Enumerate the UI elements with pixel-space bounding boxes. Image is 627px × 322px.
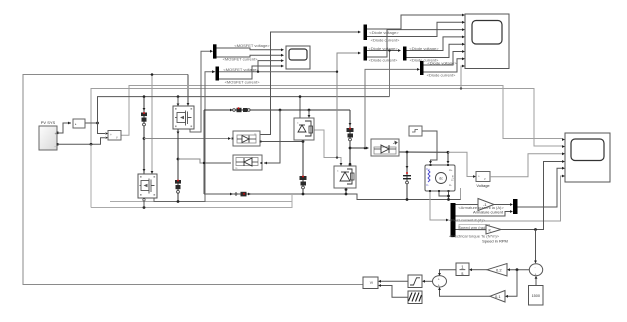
- svg-text:0.1: 0.1: [495, 294, 501, 299]
- svg-text:+: +: [438, 283, 440, 287]
- constant block A (TL input): [409, 126, 422, 136]
- node drain bus D3 tap: [299, 95, 302, 98]
- node motor top junction: [447, 151, 450, 154]
- wire D5 output to motor: [399, 151, 448, 153]
- node D4 rail junction: [345, 193, 348, 196]
- wire D1 m port to bus B3 riser: [260, 32, 358, 135]
- wire B7 out4 to RPM gain: [456, 229, 487, 231]
- wire right end of y110 down to S5: [349, 110, 351, 165]
- sum block sum2: [433, 276, 447, 288]
- node PI branch: [516, 268, 519, 271]
- wire B4 out2 to scope2 in3: [367, 30, 462, 57]
- svg-text:TL m: TL m: [451, 175, 455, 181]
- node B4 riser junction: [336, 156, 338, 158]
- svg-text:<MOSFET voltage>: <MOSFET voltage>: [223, 67, 259, 72]
- current sensor S3 horizontal on rail y194: [230, 192, 251, 197]
- svg-text:PV SYS: PV SYS: [41, 120, 56, 125]
- wire B7 out1 to gain -1: [456, 204, 479, 206]
- wire motor right stub to rail: [460, 188, 462, 200]
- node D5 output capacitor branch: [406, 151, 409, 154]
- svg-text:<MOSFET voltage>: <MOSFET voltage>: [234, 43, 270, 48]
- wire bridge top bus y=110: [204, 109, 350, 111]
- arrow into MOSFET2 top-left: [143, 169, 146, 172]
- node D1 out junction on D3 column: [302, 140, 305, 143]
- arrow into B4: [358, 52, 361, 55]
- diode block D1: [232, 131, 262, 146]
- diode block D5 (boost diode): [371, 139, 399, 156]
- wire B2 out2 to scope1 in4: [219, 66, 281, 79]
- arrow into B7: [446, 219, 449, 222]
- gain 0.1 triangle (left pointing): [490, 291, 505, 303]
- current sensor S7 vertical below D3: [300, 176, 307, 189]
- wire motor m port to bus selector B7: [430, 191, 446, 220]
- node B5 feed junction: [388, 49, 390, 51]
- scope1 (4 inputs): [281, 46, 310, 69]
- node S1 line to D1: [143, 137, 146, 140]
- wire PV- down to bottom rail: [90, 144, 92, 207]
- svg-text:0.2: 0.2: [496, 268, 502, 273]
- wire gate riser to MOSFET1: [187, 75, 189, 105]
- inductor block L1: [68, 119, 85, 128]
- comparator block K: [363, 277, 378, 289]
- diode block D2 (pointing left): [233, 155, 263, 170]
- saturation block: [408, 275, 422, 288]
- wire A constant block down to motor: [422, 131, 437, 161]
- node y110 to D3 gate arrow: [308, 109, 311, 112]
- svg-text:Armature current: Armature current: [473, 210, 504, 215]
- wire D3 m port loop to B4 riser and D4 input: [314, 130, 341, 163]
- arrow into capacitor: [406, 166, 409, 169]
- sum block sum3 (speed error): [529, 264, 542, 277]
- repeating sequence block (sawtooth): [408, 291, 422, 304]
- wire rail A y=194: [204, 194, 461, 200]
- node drain bus to S1: [143, 95, 146, 98]
- wire left bottom rail y=201.5: [110, 194, 292, 202]
- node D4 bottom junction: [345, 188, 348, 191]
- arrow into D1: [228, 137, 231, 140]
- node y110 to D2 input riser: [279, 109, 282, 112]
- wire drain bus down to diode D3 top-left: [299, 97, 301, 118]
- node S5 to D5 branch: [349, 147, 352, 150]
- wire D5 input node to B6 input riser: [364, 147, 367, 150]
- wire B3 out1 to scope2 in1: [367, 15, 462, 29]
- node D2out/rail riser junction: [203, 162, 205, 164]
- svg-text:Voltage: Voltage: [476, 183, 490, 188]
- wire L1 output to node: [85, 122, 98, 124]
- gain -1 triangle: [478, 199, 494, 211]
- DC motor block: [425, 164, 455, 192]
- wire riser up to bus B4: [337, 53, 358, 158]
- wire voltage meas output to scope3 in3: [490, 154, 562, 177]
- svg-text:+: +: [535, 273, 537, 277]
- wire sum2 output to saturation: [425, 280, 433, 282]
- node MOSFET2 bottom rail junction: [143, 206, 146, 209]
- arrow into S1: [143, 108, 146, 111]
- wire bridge left end riser: [203, 110, 205, 163]
- svg-text:<Diode voltage>: <Diode voltage>: [368, 46, 398, 51]
- svg-text:+: +: [110, 133, 112, 137]
- svg-text:<Diode current>: <Diode current>: [371, 38, 400, 43]
- gain 0.2 triangle (left pointing): [487, 264, 507, 277]
- wire sum3 output to gain 0.2: [508, 269, 529, 271]
- bus selector B6: [420, 61, 424, 75]
- bus creator B8: [513, 199, 518, 214]
- wire B2 out1 to scope1 in3: [219, 71, 337, 73]
- wire source node to D2 output path: [178, 159, 204, 163]
- wire PV plus to L1 inductor: [58, 123, 72, 133]
- wire node up and right (drain bus y=96): [98, 97, 390, 123]
- node L1 output junction: [96, 122, 99, 125]
- wire speed down to sum3: [535, 230, 537, 261]
- svg-text:<MOSFET current>: <MOSFET current>: [225, 80, 260, 85]
- wire motor A+ drop: [447, 152, 449, 161]
- node MOSFET1 source junction: [177, 158, 180, 161]
- svg-text:<Diode voltage>: <Diode voltage>: [369, 30, 399, 35]
- wire MOSFET1 top connection: [177, 97, 179, 106]
- wire PV- voltage to Scope3 in2 (long light wire): [91, 89, 562, 147]
- MOSFET block M2: [138, 171, 157, 201]
- svg-text:A-: A-: [449, 183, 452, 187]
- wire B8 output to scope3 in5: [518, 168, 563, 207]
- wire RPM gain output to sum3 and scope3 in4: [501, 162, 562, 230]
- wire D1 output to D3 column: [260, 141, 303, 143]
- bus selector B4: [364, 47, 368, 61]
- wire B5 out2 to scope2 in5: [407, 44, 463, 57]
- wire gate riser to MOSFET2: [151, 75, 153, 172]
- node motor rail junction: [447, 198, 450, 201]
- wire scope2 in8 riser: [461, 66, 462, 89]
- diode block D3 (vertical): [294, 118, 314, 140]
- svg-text:+: +: [55, 132, 57, 136]
- label speed wm boxed: [458, 225, 490, 231]
- wire D2 output left and down to rail: [204, 163, 231, 194]
- wire down to S1 sensor: [143, 97, 145, 174]
- bus selector B3: [364, 25, 368, 41]
- scope2 (8 inputs): [462, 14, 509, 69]
- arrow into S5: [349, 123, 352, 126]
- current sensor S5 vertical above D4: [347, 128, 354, 141]
- wire B2 out1 branch to scope1 in3: [258, 61, 281, 72]
- current sensor S2: [175, 180, 181, 194]
- wire B7 out3 to scope3 in6: [456, 176, 563, 221]
- wire gain 0.2 to integrator: [472, 269, 487, 271]
- MOSFET block M1: [173, 103, 194, 135]
- wire node down into V2 input1: [98, 123, 106, 134]
- wire left bottom rail y=207.5: [91, 202, 292, 208]
- constant block 1500: [529, 286, 544, 306]
- wire motor bottom ports to rail: [439, 191, 449, 196]
- wire B4 out1 to B5 input: [367, 50, 398, 52]
- wire B5 out1 to scope2 in4: [407, 37, 463, 51]
- bus selector B7 (motor measurements): [451, 203, 456, 237]
- svg-text:<Diode voltage>: <Diode voltage>: [427, 61, 457, 66]
- wire riser from drain bus to B5 input: [389, 51, 391, 97]
- voltage measurement block V2: [106, 131, 122, 141]
- arrow into motor top left: [429, 161, 432, 164]
- svg-text:F-: F-: [427, 183, 430, 187]
- arrow into D4 top-right: [349, 163, 352, 166]
- wire voltage meas tap: [448, 152, 473, 176]
- node D4 gate junction: [349, 164, 352, 167]
- node motor bottom junction: [447, 195, 450, 198]
- wire S1 node to diode D1 input: [144, 138, 228, 140]
- svg-text:<Diode voltage>: <Diode voltage>: [409, 46, 439, 51]
- arrow into motor top right: [447, 161, 450, 164]
- arrow into B3: [358, 31, 361, 34]
- wire MOSFET2 m port to bus selector B2 riser: [154, 72, 212, 202]
- node D3 column rail junction: [302, 193, 305, 196]
- capacitor C1: [403, 172, 411, 184]
- wire B1 out1 to scope1 in1: [217, 48, 282, 50]
- wire down into D3 top-right: [308, 110, 310, 115]
- svg-text:A+: A+: [449, 168, 453, 172]
- wire MOSFET1 bottom to S2 and rail: [177, 129, 179, 202]
- wire B6 out1 to scope2 in6: [424, 52, 463, 66]
- wire branch down to gain 0.1: [508, 270, 517, 297]
- wire B6 out2 to scope2 in7: [424, 59, 463, 72]
- wire 1500 to sum3: [535, 279, 537, 286]
- node B2 out1 to B4 riser junction: [336, 71, 338, 73]
- bus selector B5: [403, 47, 407, 61]
- svg-text:-: -: [535, 265, 536, 269]
- node S2 rail junction: [177, 200, 180, 203]
- voltage measurement block (motor): [476, 172, 490, 189]
- wire gain 0.1 to sum2 bottom: [440, 290, 491, 296]
- arrow into voltage block: [473, 175, 476, 178]
- wire V2 output to Scope3 in1 (long light wire): [121, 86, 562, 139]
- svg-text:1500: 1500: [532, 294, 540, 298]
- arrow into D5: [366, 147, 369, 150]
- svg-text:<Field current if (A)>: <Field current if (A)>: [449, 218, 486, 223]
- node capacitor rail junction: [406, 198, 409, 201]
- wire riser down to D2 input: [264, 110, 280, 163]
- svg-text:<MOSFET current>: <MOSFET current>: [223, 57, 258, 62]
- wire gain -1 to B8 in1: [494, 204, 510, 206]
- wire D3 bottom through S7 to rail: [302, 140, 304, 194]
- wire D4 bottom to rail: [345, 188, 347, 194]
- svg-text:<Diode current>: <Diode current>: [369, 58, 398, 63]
- wire PV minus horizontal: [58, 138, 106, 145]
- diode block D4 (vertical): [334, 166, 356, 188]
- wire MOSFET2 bottom to rail: [143, 198, 145, 208]
- svg-text:F+: F+: [427, 167, 431, 171]
- gain rad/s to RPM: [486, 225, 501, 234]
- wire B1 out2 to scope1 in2: [217, 55, 282, 57]
- svg-text:dc: dc: [439, 177, 443, 181]
- arrow into D2 right side: [264, 162, 267, 165]
- bus selector B2: [212, 67, 219, 81]
- wire PWM feedback loop from K output to gates: [23, 75, 363, 285]
- wire capacitor column: [406, 152, 408, 200]
- wire B3 out2 to scope2 in2: [367, 22, 462, 36]
- arrow into D3 top-right: [308, 115, 311, 118]
- svg-text:<Diode current>: <Diode current>: [427, 73, 456, 78]
- integrator block 1/s: [456, 263, 469, 276]
- wire B7 out2 to B8 in2: [456, 212, 511, 217]
- node speed split: [534, 228, 537, 231]
- wire integrator to sum2 top: [440, 270, 457, 273]
- node B2 out1 scope tap: [257, 71, 259, 73]
- arrow into D4 top-left: [340, 163, 343, 166]
- svg-text:Speed in RPM: Speed in RPM: [482, 239, 508, 244]
- wire motor bottom right to rail: [448, 191, 450, 200]
- node PV- junction: [90, 143, 93, 146]
- node drain bus to MOSFET1 top: [177, 95, 180, 98]
- svg-text:+: +: [478, 175, 480, 179]
- bus selector B1: [210, 44, 217, 58]
- wire S5 node to D5 input: [350, 147, 366, 149]
- scope3 (6 inputs): [562, 133, 610, 182]
- current sensor S1: [141, 112, 147, 126]
- wire saturation to comparator: [381, 280, 408, 282]
- current sensor S4 horizontal on y110: [230, 107, 250, 112]
- wire sawtooth to comparator: [381, 286, 408, 298]
- wire MOSFET1 m port to bus selector B1 riser: [190, 51, 210, 132]
- svg-text:+: +: [438, 277, 440, 281]
- node junction gate split: [151, 73, 154, 76]
